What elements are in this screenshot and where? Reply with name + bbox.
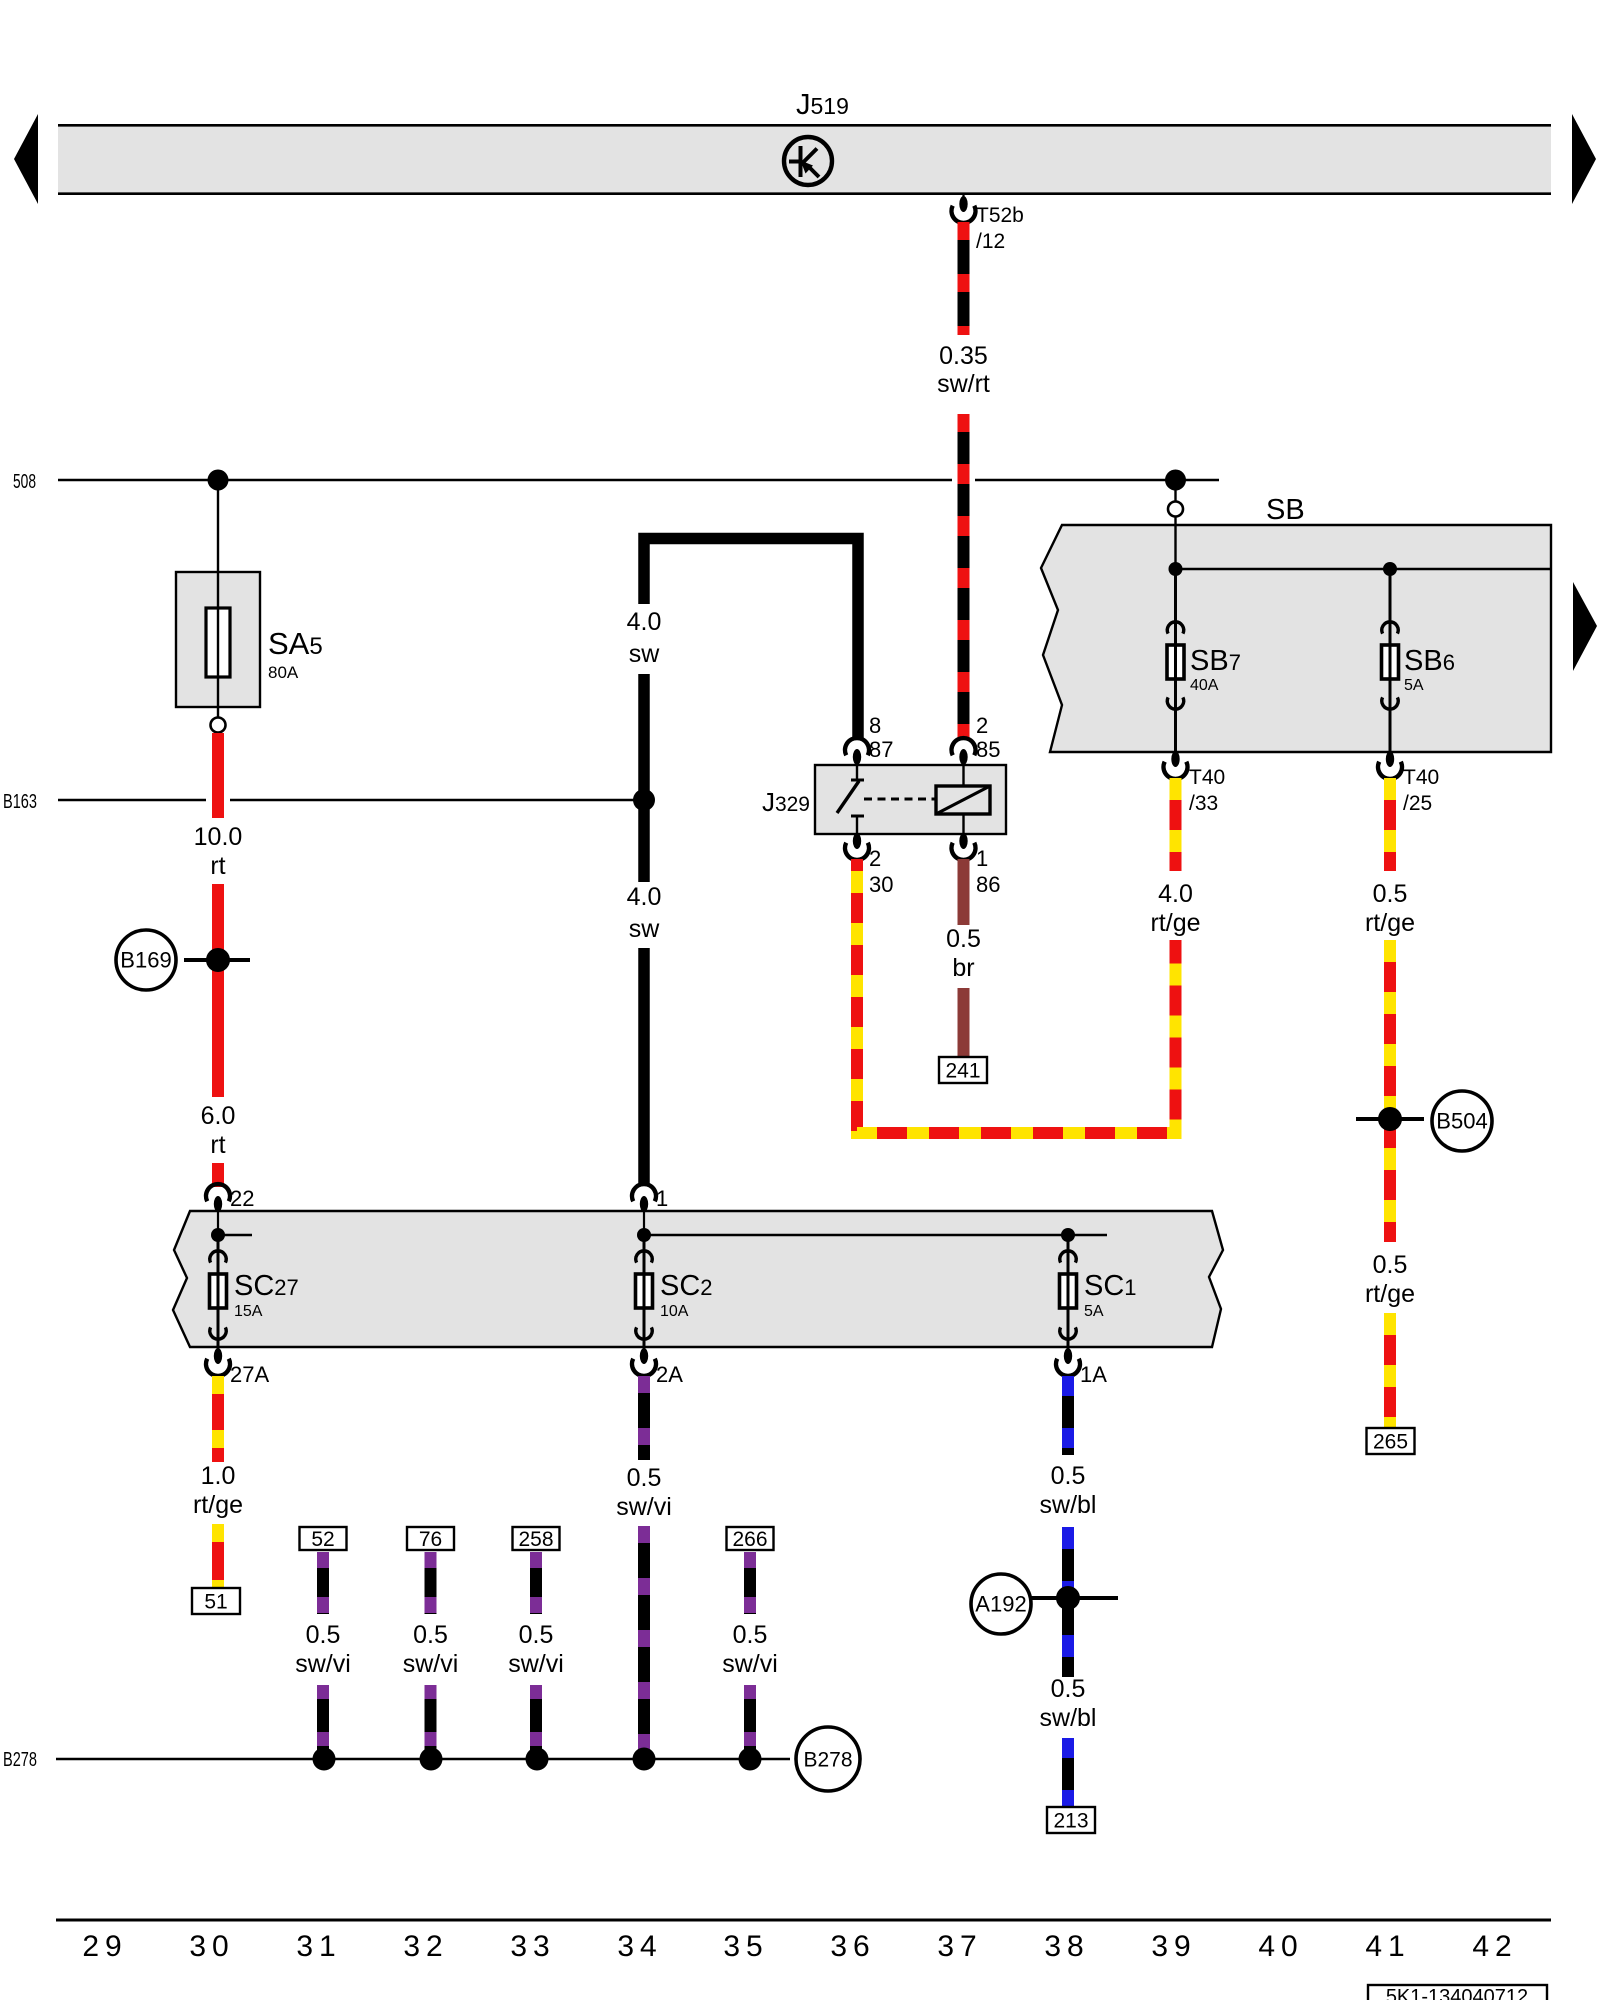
connector T40/33 under SB7 bbox=[1164, 751, 1226, 815]
fuse box SB bbox=[1041, 525, 1551, 752]
label SB7 bbox=[1190, 645, 1241, 694]
svg-text:40: 40 bbox=[1258, 1930, 1303, 1963]
relay coil bbox=[936, 765, 990, 834]
svg-text:0.35: 0.35 bbox=[939, 342, 988, 370]
svg-text:39: 39 bbox=[1151, 1930, 1196, 1963]
svg-text:T40: T40 bbox=[1189, 766, 1225, 789]
wire 6.0 rt lower stub bbox=[212, 1163, 224, 1187]
svg-text:0.5: 0.5 bbox=[413, 1621, 448, 1649]
svg-text:35: 35 bbox=[723, 1930, 768, 1963]
splice B169 tick bbox=[184, 958, 250, 962]
wiring designation box 265 bbox=[1367, 1428, 1415, 1454]
wire 6.0 rt segment through B169 bbox=[212, 884, 224, 1097]
junction on B278 #2 bbox=[420, 1748, 443, 1771]
svg-text:B163: B163 bbox=[3, 791, 37, 813]
wire 0.5 sw/vi from 52 upper bbox=[317, 1552, 329, 1614]
terminal circle below SA5 bbox=[211, 718, 226, 733]
wire 0.5 rt/ge upper segment bbox=[1384, 778, 1396, 871]
fuse box SC bbox=[173, 1211, 1223, 1347]
wire 0.5 rt/ge through B504 bbox=[1384, 940, 1396, 1242]
svg-text:5K1-134040712: 5K1-134040712 bbox=[1386, 1986, 1528, 2000]
svg-text:SC2: SC2 bbox=[660, 1270, 713, 1302]
svg-text:sw/vi: sw/vi bbox=[403, 1650, 459, 1678]
wire 0.5 sw/vi from SC2 upper bbox=[638, 1376, 650, 1460]
page-continuation arrow right of SB bbox=[1573, 582, 1597, 671]
wire 0.5 sw/vi from 258 upper bbox=[530, 1552, 542, 1614]
svg-text:87: 87 bbox=[869, 737, 893, 762]
svg-text:SB6: SB6 bbox=[1404, 645, 1455, 677]
svg-text:0.5: 0.5 bbox=[519, 1621, 554, 1649]
connection label A192 bbox=[971, 1574, 1031, 1634]
fuse SC1 5A bbox=[1060, 1235, 1077, 1347]
label 6.0 rt bbox=[201, 1102, 236, 1159]
svg-text:52: 52 bbox=[311, 1528, 334, 1551]
svg-text:34: 34 bbox=[617, 1930, 662, 1963]
svg-text:38: 38 bbox=[1044, 1930, 1089, 1963]
bus/terminal symbol inside J519 bbox=[784, 137, 832, 185]
diagram number box 5K1-134040712 bbox=[1368, 1985, 1547, 2000]
connector T52b/12 at J519 bbox=[952, 195, 1024, 253]
svg-text:265: 265 bbox=[1373, 1431, 1408, 1454]
page-continuation arrow left of J519 bbox=[14, 114, 38, 204]
splice B169 junction bbox=[206, 948, 230, 972]
wire 0.35 sw/rt lower segment to relay pin 85 bbox=[958, 414, 970, 740]
svg-text:J519: J519 bbox=[796, 89, 849, 121]
svg-text:0.5: 0.5 bbox=[627, 1464, 662, 1492]
svg-text:br: br bbox=[952, 954, 974, 982]
wire 1.0 rt/ge upper segment bbox=[212, 1376, 224, 1462]
wiring designation box 266 bbox=[727, 1527, 774, 1551]
connector 22 above SC27 bbox=[206, 1184, 254, 1235]
svg-text:40A: 40A bbox=[1190, 677, 1219, 694]
ground designation box 51 bbox=[192, 1588, 240, 1614]
fuse SC2 10A bbox=[636, 1235, 653, 1347]
svg-text:SC27: SC27 bbox=[234, 1270, 299, 1302]
relay contact pin 8/87 connector bbox=[845, 713, 893, 765]
svg-text:36: 36 bbox=[830, 1930, 875, 1963]
fuse SC27 15A bbox=[210, 1235, 227, 1347]
SC internal stub at SC27 bbox=[218, 1234, 252, 1236]
svg-text:80A: 80A bbox=[268, 663, 299, 682]
svg-text:sw/vi: sw/vi bbox=[295, 1650, 351, 1678]
ground designation box 213 bbox=[1047, 1807, 1095, 1833]
svg-text:37: 37 bbox=[937, 1930, 982, 1963]
svg-text:4.0: 4.0 bbox=[627, 608, 662, 636]
svg-text:0.5: 0.5 bbox=[1373, 1251, 1408, 1279]
svg-text:T40: T40 bbox=[1403, 766, 1439, 789]
connection label B504 bbox=[1432, 1091, 1492, 1151]
junction on B278 #1 bbox=[313, 1748, 336, 1771]
connector T40/25 under SB6 bbox=[1378, 751, 1439, 815]
svg-text:5A: 5A bbox=[1404, 677, 1424, 694]
wire 0.5 sw/bl through A192 bbox=[1062, 1527, 1074, 1677]
connection label B278 bbox=[796, 1727, 860, 1791]
svg-text:sw: sw bbox=[629, 640, 661, 668]
svg-text:0.5: 0.5 bbox=[1051, 1462, 1086, 1490]
wire rt/ge U-run from relay pin 30 to SB7 T40/33 bbox=[857, 859, 1176, 1133]
label 4.0 rt/ge bbox=[1150, 880, 1200, 937]
wire 0.35 sw/rt upper segment bbox=[958, 222, 970, 335]
connector 2A below SC2 bbox=[632, 1347, 683, 1387]
relay switch contact bbox=[837, 765, 864, 834]
svg-text:rt: rt bbox=[210, 852, 225, 880]
svg-text:0.5: 0.5 bbox=[733, 1621, 768, 1649]
label J519 bbox=[796, 89, 849, 121]
svg-text:32: 32 bbox=[403, 1930, 448, 1963]
wire 0.5 br from relay pin 86 bbox=[958, 859, 970, 925]
svg-text:51: 51 bbox=[204, 1591, 227, 1614]
svg-text:T52b: T52b bbox=[976, 204, 1024, 227]
label 0.5 sw/vi 266 bbox=[722, 1621, 778, 1678]
wire 0.5 sw/vi from 76 to B278 bbox=[425, 1685, 437, 1759]
node line B163 bbox=[58, 799, 644, 801]
svg-text:rt/ge: rt/ge bbox=[1150, 909, 1200, 937]
svg-text:SB7: SB7 bbox=[1190, 645, 1241, 677]
svg-text:15A: 15A bbox=[234, 1303, 263, 1320]
junction on 508 above SB bbox=[1165, 470, 1186, 491]
svg-text:2: 2 bbox=[869, 846, 881, 871]
bottom grid numbers 29-42 bbox=[82, 1930, 1517, 1963]
svg-text:30: 30 bbox=[869, 872, 893, 897]
label SA5 bbox=[268, 626, 323, 682]
svg-text:33: 33 bbox=[510, 1930, 555, 1963]
label SC1 bbox=[1084, 1270, 1137, 1320]
svg-text:SB: SB bbox=[1266, 494, 1305, 526]
svg-text:213: 213 bbox=[1053, 1810, 1088, 1833]
svg-text:86: 86 bbox=[976, 872, 1000, 897]
SB internal rail bbox=[1176, 568, 1552, 570]
lead into SB internal rail bbox=[1174, 517, 1176, 569]
svg-text:B504: B504 bbox=[1436, 1109, 1487, 1134]
svg-text:rt/ge: rt/ge bbox=[1365, 909, 1415, 937]
fuse SB6 5A bbox=[1382, 569, 1399, 752]
wiring designation box 258 bbox=[513, 1527, 560, 1551]
wire 4.0 sw lower segment to SC2 bbox=[638, 948, 650, 1185]
relay actuation dashed link bbox=[864, 798, 936, 801]
control unit J519 bar (onboard supply control unit) bbox=[58, 124, 1551, 195]
svg-text:2: 2 bbox=[976, 713, 988, 738]
label 0.5 sw/vi 258 bbox=[508, 1621, 564, 1678]
terminal circle above SB bbox=[1168, 502, 1183, 517]
svg-text:4.0: 4.0 bbox=[1158, 880, 1193, 908]
wire 4.0 rt/ge upper segment bbox=[1170, 778, 1182, 871]
relay pin 2/30 connector bbox=[845, 833, 893, 897]
splice A192 tick bbox=[1031, 1596, 1118, 1600]
label 1.0 rt/ge bbox=[193, 1462, 243, 1519]
svg-text:0.5: 0.5 bbox=[306, 1621, 341, 1649]
svg-text:sw/rt: sw/rt bbox=[937, 370, 990, 398]
svg-text:0.5: 0.5 bbox=[946, 925, 981, 953]
svg-text:rt: rt bbox=[210, 1131, 225, 1159]
node line 508 bbox=[58, 479, 1219, 481]
svg-text:5A: 5A bbox=[1084, 1303, 1104, 1320]
svg-text:42: 42 bbox=[1472, 1930, 1517, 1963]
label 0.5 sw/vi 52 bbox=[295, 1621, 351, 1678]
svg-text:508: 508 bbox=[13, 471, 36, 493]
SC internal rail SC2 to SC1 bbox=[644, 1234, 1107, 1236]
label 0.5 rt/ge upper bbox=[1365, 880, 1415, 937]
svg-text:sw: sw bbox=[629, 915, 661, 943]
svg-text:sw/vi: sw/vi bbox=[722, 1650, 778, 1678]
svg-text:266: 266 bbox=[732, 1528, 767, 1551]
svg-text:31: 31 bbox=[296, 1930, 341, 1963]
label 4.0 sw upper bbox=[627, 608, 662, 668]
label 0.5 sw/bl upper bbox=[1040, 1462, 1097, 1519]
wiring designation box 52 bbox=[300, 1527, 347, 1551]
svg-text:B278: B278 bbox=[3, 1749, 37, 1771]
connector 1A below SC1 bbox=[1056, 1347, 1107, 1387]
svg-text:/25: /25 bbox=[1403, 792, 1432, 815]
lead from 508 to SA5 bbox=[217, 480, 219, 572]
svg-text:0.5: 0.5 bbox=[1373, 880, 1408, 908]
page-continuation arrow right of J519 bbox=[1572, 114, 1596, 204]
svg-text:8: 8 bbox=[869, 713, 881, 738]
svg-text:258: 258 bbox=[518, 1528, 553, 1551]
wire 0.5 sw/vi from 266 upper bbox=[744, 1552, 756, 1614]
relay pin 1/86 connector bbox=[951, 833, 1000, 897]
wire 0.5 sw/bl from SC1 upper bbox=[1062, 1376, 1074, 1455]
svg-text:41: 41 bbox=[1365, 1930, 1410, 1963]
wire 4.0 sw middle segment bbox=[638, 674, 650, 882]
svg-text:22: 22 bbox=[230, 1186, 254, 1211]
splice A192 junction bbox=[1056, 1586, 1080, 1610]
svg-text:30: 30 bbox=[189, 1930, 234, 1963]
label SB6 bbox=[1404, 645, 1455, 694]
wire 0.5 rt/ge bottom segment bbox=[1384, 1313, 1396, 1428]
SC rail junction at SC1 bbox=[1061, 1228, 1075, 1242]
svg-text:6.0: 6.0 bbox=[201, 1102, 236, 1130]
label 0.5 rt/ge lower bbox=[1365, 1251, 1415, 1308]
svg-text:B169: B169 bbox=[120, 948, 171, 973]
connector 27A below SC27 bbox=[206, 1347, 269, 1387]
svg-text:sw/bl: sw/bl bbox=[1040, 1491, 1097, 1519]
svg-text:sw/vi: sw/vi bbox=[508, 1650, 564, 1678]
svg-text:241: 241 bbox=[945, 1060, 980, 1083]
wire 0.5 sw/bl bottom segment bbox=[1062, 1738, 1074, 1807]
svg-text:rt/ge: rt/ge bbox=[1365, 1280, 1415, 1308]
SC rail junction at SC27 bbox=[211, 1228, 225, 1242]
label 0.5 sw/bl lower bbox=[1040, 1675, 1097, 1732]
SB rail junction at SB6 bbox=[1383, 562, 1397, 576]
svg-text:sw/bl: sw/bl bbox=[1040, 1704, 1097, 1732]
junction on B278 #4 bbox=[633, 1748, 656, 1771]
label 0.35 sw/rt bbox=[937, 342, 990, 398]
ground designation box 241 bbox=[939, 1057, 987, 1083]
svg-text:1.0: 1.0 bbox=[201, 1462, 236, 1490]
SC rail junction at SC2 bbox=[637, 1228, 651, 1242]
label 0.5 sw/vi SC2 bbox=[616, 1464, 672, 1521]
label SC2 bbox=[660, 1270, 713, 1320]
wiring designation box 76 bbox=[407, 1527, 454, 1551]
wire 1.0 rt/ge lower segment bbox=[212, 1524, 224, 1588]
wire 0.5 sw/vi from 52 to B278 bbox=[317, 1685, 329, 1759]
label 4.0 sw lower bbox=[627, 883, 662, 943]
svg-text:SC1: SC1 bbox=[1084, 1270, 1137, 1302]
wire 0.5 br lower segment bbox=[958, 988, 970, 1057]
fuse SB7 40A bbox=[1167, 569, 1184, 752]
svg-text:/33: /33 bbox=[1189, 792, 1218, 815]
svg-text:4.0: 4.0 bbox=[627, 883, 662, 911]
svg-text:0.5: 0.5 bbox=[1051, 1675, 1086, 1703]
connector 1 above SC2 bbox=[632, 1184, 668, 1235]
relay coil pin 2/85 connector bbox=[952, 713, 1001, 765]
splice B504 tick bbox=[1356, 1117, 1424, 1121]
svg-text:10A: 10A bbox=[660, 1303, 689, 1320]
svg-text:1: 1 bbox=[656, 1186, 668, 1211]
svg-text:1A: 1A bbox=[1080, 1362, 1107, 1387]
lead from 508 into SB bbox=[1174, 480, 1176, 502]
svg-text:1: 1 bbox=[976, 846, 988, 871]
wire 4.0 sw with corner to relay pin 87 bbox=[644, 539, 858, 741]
svg-text:76: 76 bbox=[419, 1528, 442, 1551]
wire 0.5 sw/vi from 76 upper bbox=[425, 1552, 437, 1614]
svg-text:sw/vi: sw/vi bbox=[616, 1493, 672, 1521]
wire 0.5 sw/vi from 258 to B278 bbox=[530, 1685, 542, 1759]
SB rail junction at SB7 bbox=[1169, 562, 1183, 576]
wire 0.5 sw/vi from 266 to B278 bbox=[744, 1685, 756, 1759]
junction of B163 on 4.0 sw wire bbox=[633, 789, 655, 811]
svg-text:/12: /12 bbox=[976, 230, 1005, 253]
wire 0.5 sw/vi from SC2 to B278 bbox=[638, 1526, 650, 1759]
junction on B278 #5 bbox=[739, 1748, 762, 1771]
label 0.5 sw/vi 76 bbox=[403, 1621, 459, 1678]
svg-text:27A: 27A bbox=[230, 1362, 269, 1387]
relay J329 box bbox=[815, 765, 1006, 834]
junction on 508 above SA5 bbox=[208, 470, 229, 491]
label SC27 bbox=[234, 1270, 299, 1320]
svg-text:2A: 2A bbox=[656, 1362, 683, 1387]
svg-text:rt/ge: rt/ge bbox=[193, 1491, 243, 1519]
wire 10.0 rt segment bbox=[212, 733, 224, 818]
fuse SA5 80A bbox=[176, 572, 260, 717]
junction on B278 #3 bbox=[526, 1748, 549, 1771]
connection label B169 bbox=[116, 930, 176, 990]
svg-text:A192: A192 bbox=[975, 1592, 1026, 1617]
label 0.5 br bbox=[946, 925, 981, 982]
svg-text:29: 29 bbox=[82, 1930, 127, 1963]
svg-text:10.0: 10.0 bbox=[194, 823, 243, 851]
label 10.0 rt bbox=[194, 823, 243, 880]
svg-text:85: 85 bbox=[976, 737, 1000, 762]
node line B278 bbox=[56, 1758, 790, 1760]
bottom scale line bbox=[56, 1919, 1551, 1922]
svg-text:B278: B278 bbox=[803, 1749, 852, 1772]
splice B504 junction bbox=[1378, 1107, 1402, 1131]
